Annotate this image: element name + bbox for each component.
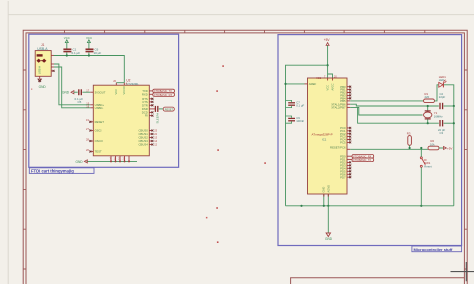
U2 top pins VCC VCCIO: [116, 83, 124, 86]
wire C6 to rail: [88, 52, 90, 55]
IC1 right pins PB0-PB5: [347, 87, 350, 99]
svg-text:FTDI cart thingymajig: FTDI cart thingymajig: [31, 168, 74, 173]
svg-text:TEST: TEST: [95, 150, 102, 154]
svg-text:USB A: USB A: [38, 66, 42, 74]
IC U2 FT232RL body: [93, 85, 149, 156]
svg-text:GND: GND: [322, 187, 326, 193]
wire C2 to rail: [444, 105, 454, 107]
svg-text:3V3OUT: 3V3OUT: [95, 90, 106, 94]
U2 left pin OSCI: [90, 130, 93, 132]
svg-text:VCC: VCC: [114, 89, 118, 95]
J1 pin shield: [51, 70, 53, 72]
ground under J1: [38, 79, 42, 82]
IC1 left pin AREF: [305, 83, 308, 85]
svg-text:XTAL2/PB7: XTAL2/PB7: [331, 106, 346, 110]
U2 left pin OSCO: [90, 140, 93, 142]
U2 right pin CBUS4: [149, 144, 152, 146]
frame column ticks: [65, 30, 425, 33]
wire XTAL1 to C2 run: [350, 104, 439, 106]
wire cap to label: [159, 108, 163, 110]
J1 internal bar: [37, 54, 43, 56]
label FTDIBASIC_TX right: [352, 158, 374, 162]
IC1 ATmega328 body: [308, 78, 348, 194]
IC1 right pin RESET/PC6: [347, 148, 350, 150]
svg-text:R3: R3: [407, 132, 411, 136]
svg-text:FTDIBASIC_TX: FTDIBASIC_TX: [353, 159, 371, 162]
svg-text:CBUS4: CBUS4: [138, 143, 148, 147]
svg-text:GND: GND: [325, 237, 333, 241]
svg-text:Microcontroller stuff: Microcontroller stuff: [414, 247, 454, 252]
wire reset run: [350, 148, 428, 150]
IC1 right pins PD2-PD7: [347, 162, 350, 177]
gnd bus wire: [286, 205, 454, 207]
U2 right pin DSR to capacitor: [149, 108, 155, 110]
stray mark left edge: [31, 89, 32, 90]
capacitor C9 on rail: [288, 117, 295, 119]
svg-text:PC5: PC5: [340, 141, 346, 145]
U2 left pin USBD-: [90, 107, 93, 109]
U2 right pin DTR: [149, 104, 152, 106]
svg-text:AREF: AREF: [309, 82, 317, 86]
wire C5 to U2: [82, 91, 90, 93]
svg-text:IC1: IC1: [322, 138, 327, 142]
U2 right pin CTS: [149, 101, 152, 103]
J1 pin D-: [51, 66, 54, 68]
capacitor C6: [86, 48, 94, 50]
U2 right pin CBUS3: [149, 140, 152, 142]
U2 left pin USBD+: [90, 104, 93, 106]
svg-text:RESET/PC6: RESET/PC6: [330, 146, 346, 150]
wire U2 gnd bus: [87, 160, 138, 162]
U2 right pin RXD: [149, 93, 152, 95]
J1 pin D+: [51, 63, 54, 65]
label FTDIBASIC_RX right: [352, 155, 374, 159]
U2 right pin CBUS0: [149, 130, 152, 132]
label FTDIBASIC_RX: [153, 93, 175, 97]
svg-text:22pF: 22pF: [439, 95, 446, 99]
svg-text:AGND: AGND: [326, 185, 330, 193]
module frame: Microcontroller stuff: [278, 35, 462, 246]
IC1 right pin PD1: [347, 158, 352, 160]
connector J1 USB-A body: [35, 51, 51, 77]
IC1 right pin PB5 wire to R1: [347, 100, 350, 102]
svg-text:OSCI: OSCI: [95, 129, 102, 133]
IC1 right pin XTAL2: [347, 106, 350, 108]
svg-text:10 µF: 10 µF: [94, 51, 102, 55]
U2 right pin CBUS1: [149, 133, 152, 135]
wire sw1 bottom: [420, 167, 422, 206]
svg-text:GND: GND: [62, 91, 70, 95]
rail down: [453, 106, 455, 206]
wire XTAL2 to crystal: [350, 107, 422, 115]
svg-text:GND: GND: [39, 85, 47, 89]
wire top jog to U2 VCC pins: [116, 82, 124, 84]
J1 pin GND down: [39, 76, 41, 78]
wire R2 to +5V: [439, 147, 443, 149]
svg-text:AVCC: AVCC: [330, 83, 334, 90]
wire gnd to C5: [74, 91, 78, 93]
svg-text:VCCIO: VCCIO: [122, 86, 126, 94]
ground at U2 bottom: [84, 160, 87, 163]
capacitor C7 on rail: [288, 102, 295, 104]
wire branch to left rail: [286, 65, 328, 206]
capacitor C1: [63, 48, 71, 50]
wire D-: [54, 67, 90, 108]
U2 right pin DCD: [149, 111, 152, 113]
svg-text:RXD: RXD: [142, 92, 148, 96]
U2 right pin RTS: [149, 98, 152, 100]
IC1 top pins: [328, 78, 333, 81]
wire VBUS rail: [54, 55, 124, 82]
module frame: FTDI cart thingymajig: [29, 34, 179, 167]
svg-text:VCC: VCC: [325, 85, 329, 91]
wire C3 run: [358, 107, 439, 123]
second frame (cropped bottom): [291, 278, 465, 284]
wire VCC2 to C6: [88, 43, 90, 49]
wire D+: [54, 64, 90, 105]
wire LED to rail: [444, 85, 454, 106]
U2 left pin 3V3OUT: [90, 91, 93, 93]
crystal Y1: [427, 106, 429, 111]
IC1 right pin PD0: [347, 155, 352, 157]
junction on rail at C1: [66, 54, 68, 56]
U2 right pin TXD: [149, 90, 152, 92]
U2 right pin RI: [149, 115, 152, 117]
capacitor on DSR line: [154, 106, 156, 112]
wire sw1 top: [420, 148, 422, 157]
capacitor C5: [78, 89, 80, 95]
svg-text:SLEEP#: SLEEP#: [156, 112, 160, 123]
svg-text:RI: RI: [145, 114, 148, 118]
svg-text:0.1 µF: 0.1 µF: [296, 104, 304, 108]
wire AVCC jog: [328, 74, 333, 78]
origin cross: [451, 262, 474, 281]
svg-text:100nF: 100nF: [296, 119, 304, 123]
switch SW1: [420, 157, 422, 159]
wire VCC1 to C1: [66, 43, 68, 49]
J1 usb trident diamonds: [36, 59, 46, 63]
capacitor C3: [439, 120, 441, 126]
svg-text:GND: GND: [76, 160, 84, 164]
IC1 bottom pins GND AGND: [324, 194, 329, 206]
svg-text:C5: C5: [78, 100, 82, 104]
svg-text:C3: C3: [440, 131, 444, 135]
sheet boundary vertical: [7, 1, 9, 284]
label RESET xref: [163, 107, 174, 111]
svg-text:ATmega328P-P: ATmega328P-P: [312, 133, 333, 137]
+5V supply right: [444, 147, 447, 150]
wire AREF from rail: [286, 83, 305, 85]
svg-text:220: 220: [425, 95, 430, 99]
svg-text:OSCO: OSCO: [95, 139, 104, 143]
svg-text:0.1 µF: 0.1 µF: [72, 51, 81, 55]
U2 left pin RESET: [90, 121, 93, 123]
svg-text:FT232RL: FT232RL: [126, 82, 139, 86]
svg-text:IC1: IC1: [317, 76, 322, 80]
ground below IC1: [326, 233, 330, 237]
label FTDIBASIC_TX: [153, 89, 175, 93]
U2 left pin TEST: [90, 151, 93, 153]
svg-text:RESET: RESET: [95, 120, 105, 124]
svg-text:Reset: Reset: [424, 164, 432, 168]
U2 bottom pins GND: [111, 156, 129, 162]
frame row ticks: [23, 70, 467, 269]
wire R1 to LED: [435, 85, 439, 101]
svg-text:16MHz: 16MHz: [434, 115, 443, 119]
svg-text:USBD-: USBD-: [95, 106, 104, 110]
wire gnd drop: [327, 206, 329, 233]
stray origin marks: [222, 65, 224, 67]
IC1 right pins PC0-PC5: [347, 128, 350, 142]
U2 right pin CBUS2: [149, 137, 152, 139]
IC1 right pin XTAL1: [347, 103, 350, 105]
wire C1 to rail: [66, 52, 68, 55]
svg-text:+5V: +5V: [447, 146, 452, 150]
sheet boundary horizontal: [8, 14, 474, 16]
wire +5V down to IC1: [327, 45, 329, 78]
svg-text:+5V: +5V: [324, 38, 331, 42]
junction +5V branch: [327, 64, 329, 66]
svg-text:FTDIBASIC_RX: FTDIBASIC_RX: [154, 94, 172, 97]
svg-text:PD7: PD7: [340, 175, 346, 179]
resistor R1: [424, 99, 435, 103]
junction on rail at C6: [88, 54, 90, 56]
J1 pin VBUS: [51, 54, 54, 56]
svg-text:RESET: RESET: [165, 108, 174, 111]
